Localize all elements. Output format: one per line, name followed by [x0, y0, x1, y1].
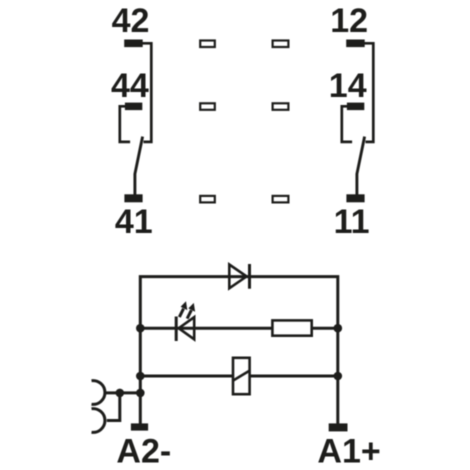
- svg-text:14: 14: [329, 67, 367, 105]
- svg-text:42: 42: [112, 2, 150, 40]
- svg-text:A1+: A1+: [317, 433, 380, 470]
- svg-text:11: 11: [334, 203, 370, 241]
- svg-text:12: 12: [330, 2, 368, 40]
- svg-text:41: 41: [115, 203, 153, 241]
- svg-text:44: 44: [111, 67, 149, 105]
- svg-text:A2-: A2-: [116, 433, 171, 470]
